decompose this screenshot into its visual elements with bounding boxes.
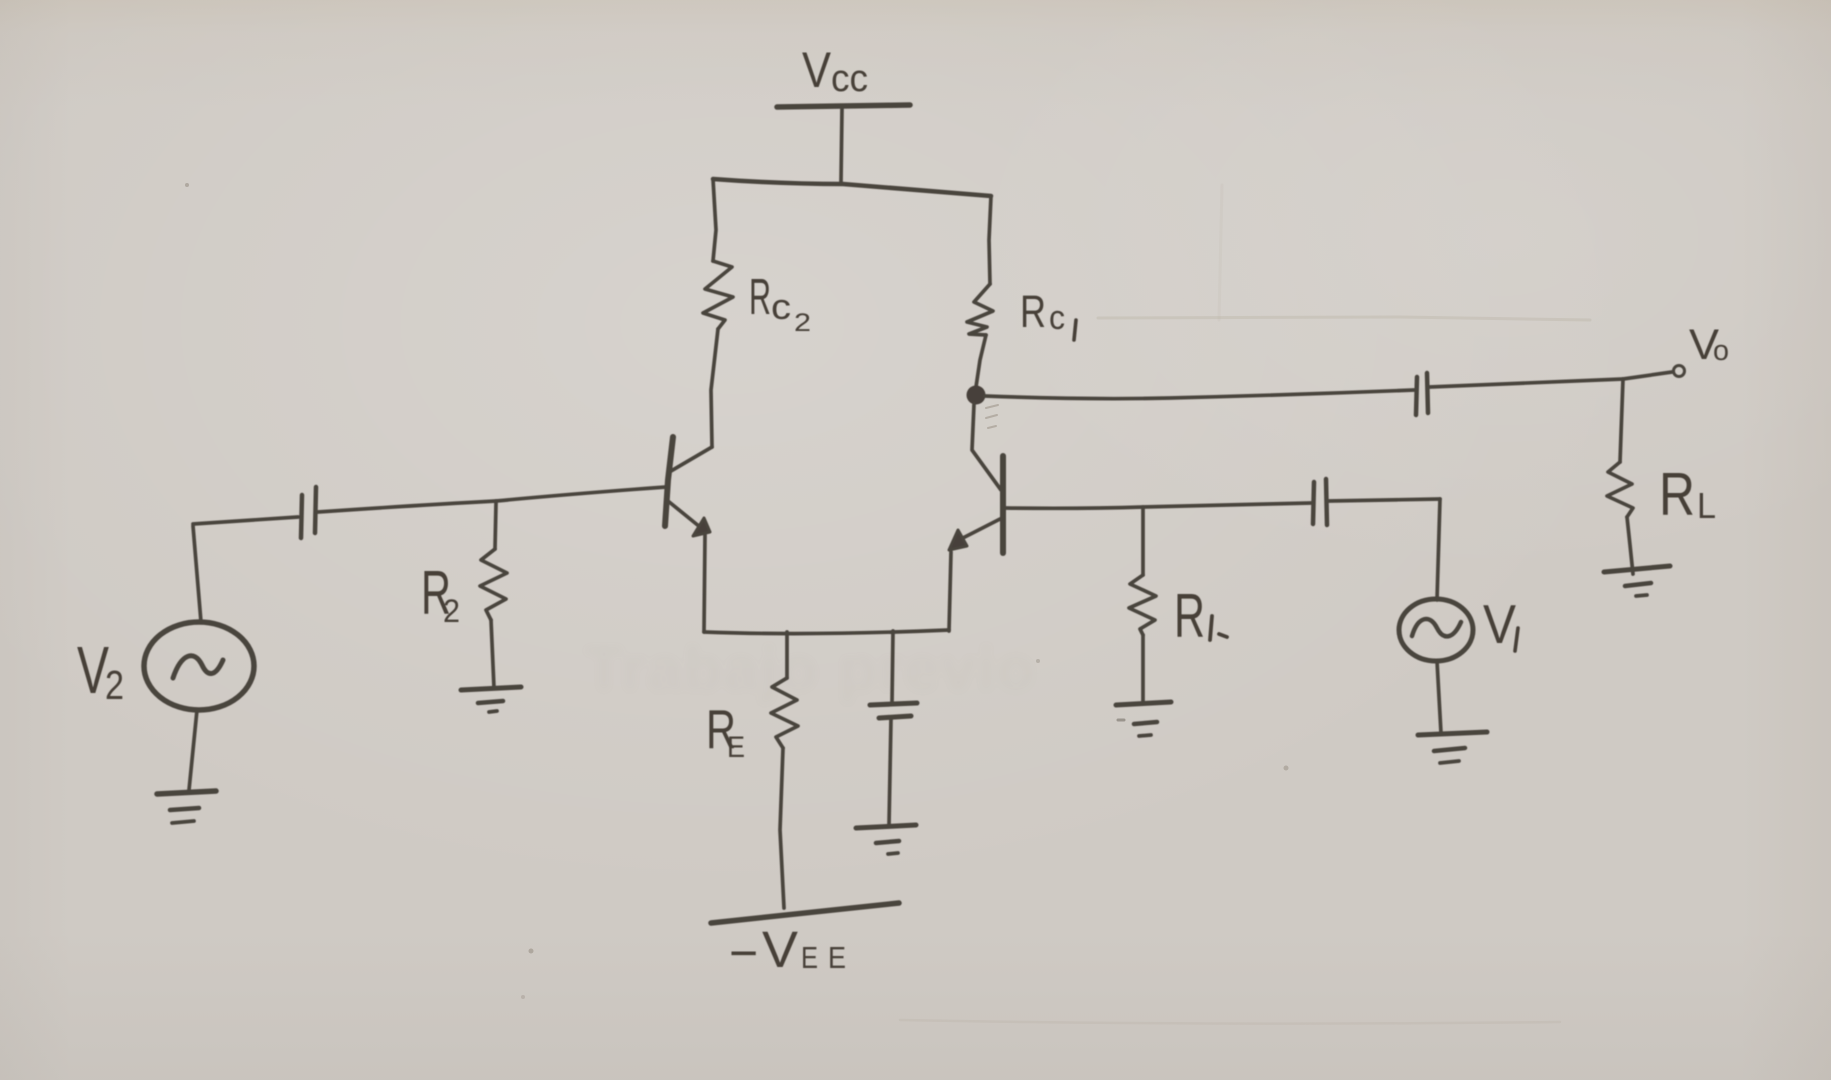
wire RC2 bottom lead [711,329,718,447]
source V1 circle [1399,599,1473,661]
wire output top [985,390,1414,399]
wire RE bottom lead [780,748,784,908]
svg-text:2: 2 [443,593,460,629]
resistor RE [771,678,798,748]
svg-text:R: R [1659,461,1695,528]
wire RL bottom lead [1627,517,1633,574]
capacitor CE bottom plate [879,716,911,718]
svg-text:V: V [762,921,798,978]
svg-text:c: c [1049,299,1065,337]
wire output right [1430,379,1623,387]
wire R1 top lead [1141,507,1145,575]
wire base Q1 [1005,503,1311,508]
wire emitter bus [704,630,949,634]
source V1 sine [1412,619,1461,636]
paper specks [185,183,189,187]
capacitor Cout left plate [1416,377,1417,415]
wire RC1 bottom lead [976,335,986,387]
wire V2 vertical [193,526,201,622]
svg-text:V: V [1483,593,1516,655]
svg-text:L: L [1697,485,1716,526]
svg-text:2: 2 [105,662,124,708]
capacitor Cout right plate [1427,373,1428,413]
wire R2 bottom lead [491,620,494,688]
capacitor C1 left plate [1313,482,1314,524]
ground below V2 [157,791,216,794]
resistor RC1 [967,284,993,335]
svg-text:−: − [729,925,758,981]
faint bleed-through line [1098,317,1590,320]
transistor Q2 emitter diagonal [668,501,700,527]
svg-text:R: R [749,268,771,325]
svg-text:E: E [801,940,818,975]
transistor Q1 collector diagonal [972,404,1001,490]
wire V1 bottom [1437,661,1441,733]
wire top rail [713,179,991,196]
wire R2 top lead [495,503,496,549]
ground below RL [1604,566,1670,572]
wire V2 bottom [189,710,197,790]
wire R1 bottom lead [1141,635,1145,703]
faint pencil hatch near node [986,405,998,428]
capacitor C1 right plate [1326,479,1327,525]
ground below CE [856,825,916,828]
wire V1 drop [1437,499,1440,600]
svg-text:R: R [1174,582,1205,651]
wire RC2 top lead [713,179,716,261]
capacitor C2 left plate [301,495,302,538]
wire Vcc stem [841,108,842,182]
transistor Q2 emitter arrow [693,518,710,536]
wire base Q2 [496,487,666,501]
wire to Vo terminal [1623,372,1672,379]
wire RC1 top lead [989,196,991,284]
wire RE top lead [785,632,789,678]
transistor Q1 base bar [1000,456,1006,553]
transistor Q1 emitter diagonal [957,518,1002,541]
transistor Q2 base bar [665,437,673,526]
resistor RL [1607,462,1633,517]
power rail Vcc [777,105,910,107]
svg-text:c: c [771,286,791,327]
wire C1 to V1 [1329,499,1440,501]
wire Q2 emitter vertical [704,535,705,632]
capacitor CE top plate [870,703,917,705]
resistor R2 [480,549,507,620]
svg-text:2: 2 [794,309,811,337]
source V2 sine [173,656,223,678]
svg-text:V: V [802,42,832,98]
faint paper crease [900,1020,1560,1024]
wire CE bottom lead [889,719,891,825]
ground below R2 [461,687,521,690]
power rail -VEE [711,903,899,923]
resistor R1 [1129,575,1156,635]
svg-text:E: E [828,940,846,975]
svg-text:o: o [1713,335,1729,367]
svg-text:R: R [1020,286,1046,337]
faint bleed-through vertical [1219,185,1222,320]
wire Q1 emitter vertical [949,552,951,631]
source V2 circle [144,622,254,710]
transistor Q2 collector diagonal [671,447,712,471]
capacitor C2 right plate [315,487,316,533]
wire V2 top horizontal [193,517,298,524]
transistor Q1 emitter arrow [949,530,967,550]
wire RL top lead [1620,379,1623,462]
wire C2 to base junction [318,501,496,512]
resistor RC2 [703,261,733,329]
ground below R1 [1116,702,1171,705]
node collector junction [967,386,986,405]
ground below V1 [1418,732,1487,735]
svg-text:cc: cc [831,58,868,100]
node Vo open terminal [1674,366,1685,377]
wire bypass cap top lead [892,631,893,703]
svg-text:E: E [727,731,745,764]
